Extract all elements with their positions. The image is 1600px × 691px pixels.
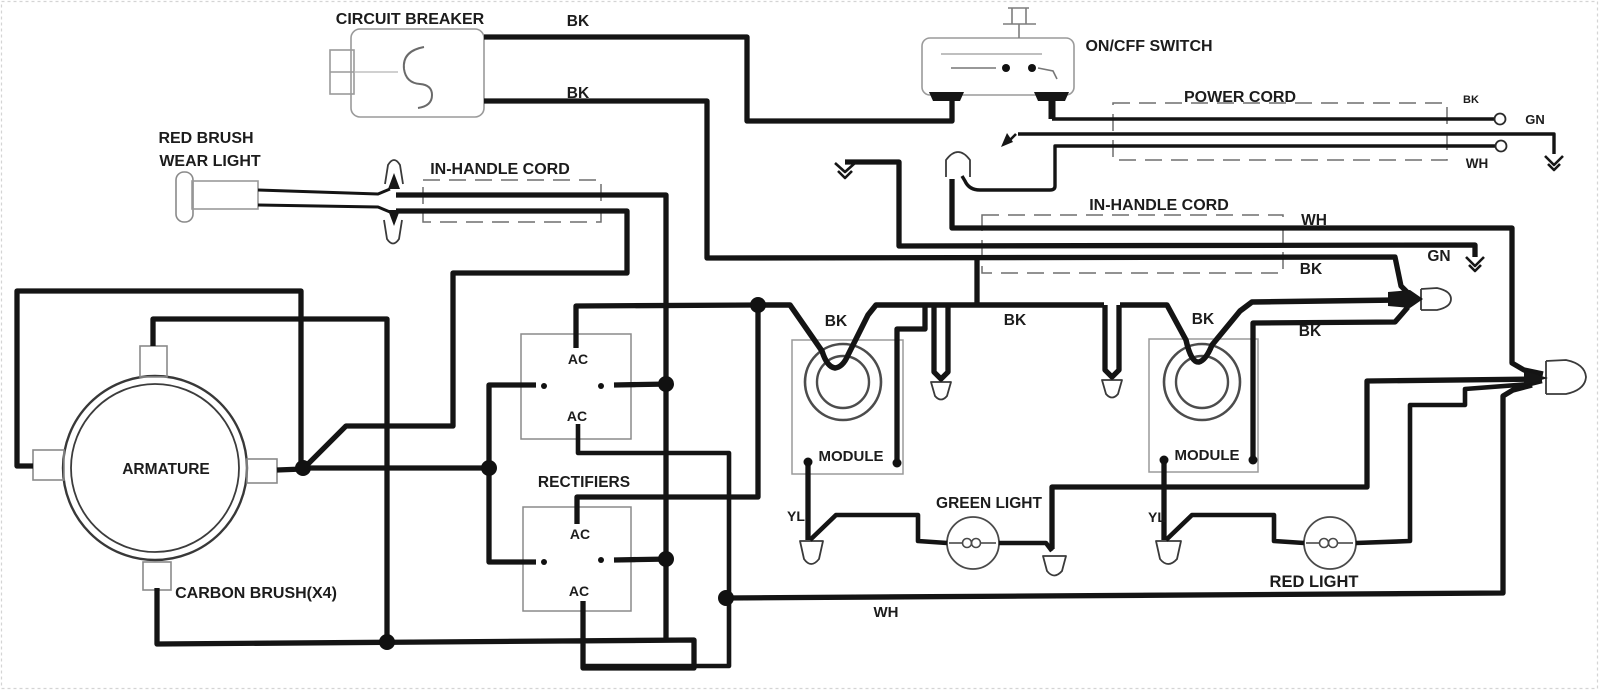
svg-text:POWER CORD: POWER CORD	[1184, 89, 1296, 106]
svg-text:BK: BK	[1300, 261, 1323, 278]
svg-text:WH: WH	[874, 604, 899, 621]
svg-text:ARMATURE: ARMATURE	[122, 461, 210, 478]
svg-text:RECTIFIERS: RECTIFIERS	[538, 474, 630, 491]
svg-text:BK: BK	[825, 313, 848, 330]
svg-text:CIRCUIT BREAKER: CIRCUIT BREAKER	[336, 11, 485, 28]
svg-text:AC: AC	[570, 526, 590, 542]
svg-text:BK: BK	[567, 13, 590, 30]
svg-text:YL: YL	[1148, 509, 1166, 525]
svg-text:GN: GN	[1427, 248, 1450, 265]
svg-text:IN-HANDLE CORD: IN-HANDLE CORD	[430, 161, 570, 178]
svg-text:BK: BK	[1004, 312, 1027, 329]
svg-text:GN: GN	[1525, 112, 1545, 127]
svg-text:ON/CFF SWITCH: ON/CFF SWITCH	[1085, 38, 1212, 55]
svg-text:MODULE: MODULE	[819, 448, 884, 465]
svg-text:GREEN LIGHT: GREEN LIGHT	[936, 495, 1042, 512]
svg-text:WH: WH	[1301, 212, 1327, 229]
svg-text:BK: BK	[1463, 94, 1479, 106]
svg-text:BK: BK	[567, 85, 590, 102]
svg-text:CARBON BRUSH(X4): CARBON BRUSH(X4)	[175, 585, 337, 602]
svg-text:AC: AC	[567, 408, 587, 424]
svg-text:MODULE: MODULE	[1175, 447, 1240, 464]
svg-text:BK: BK	[1299, 323, 1322, 340]
svg-text:RED LIGHT: RED LIGHT	[1270, 573, 1359, 591]
svg-text:YL: YL	[787, 508, 805, 524]
svg-text:BK: BK	[1192, 311, 1215, 328]
svg-text:WEAR LIGHT: WEAR LIGHT	[159, 153, 261, 170]
svg-text:RED BRUSH: RED BRUSH	[158, 130, 253, 147]
svg-text:AC: AC	[569, 583, 589, 599]
svg-text:WH: WH	[1466, 156, 1489, 171]
svg-text:AC: AC	[568, 351, 588, 367]
svg-text:IN-HANDLE CORD: IN-HANDLE CORD	[1089, 197, 1229, 214]
